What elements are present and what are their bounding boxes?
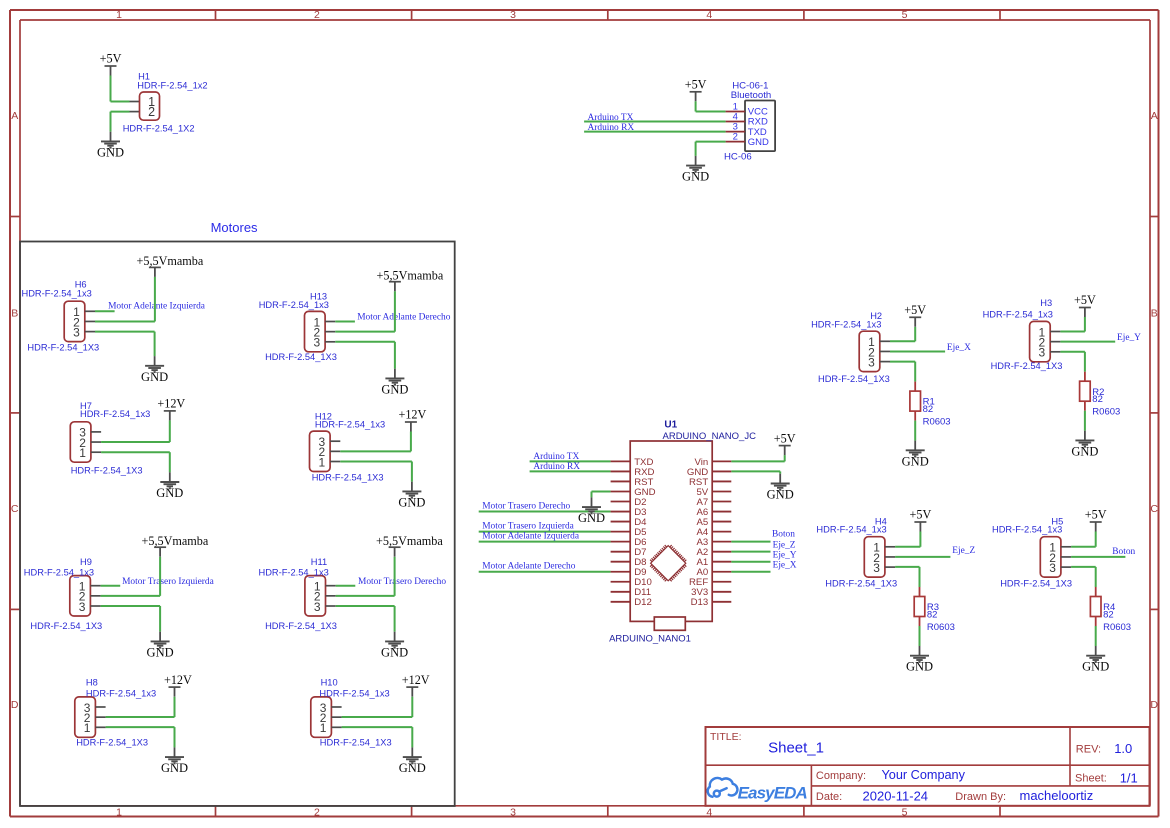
svg-text:HDR-F-2.54_1X2: HDR-F-2.54_1X2 [123, 123, 195, 133]
svg-text:U1: U1 [664, 420, 677, 431]
svg-text:H3: H3 [1040, 298, 1052, 308]
svg-text:HDR-F-2.54_1X3: HDR-F-2.54_1X3 [312, 473, 384, 483]
svg-text:HDR-F-2.54_1x3: HDR-F-2.54_1x3 [992, 525, 1062, 535]
svg-text:2: 2 [314, 806, 320, 818]
svg-text:R0603: R0603 [927, 622, 955, 633]
svg-text:+12V: +12V [402, 673, 430, 687]
svg-text:REV:: REV: [1076, 744, 1101, 756]
svg-text:+5V: +5V [904, 303, 926, 317]
svg-text:H10: H10 [321, 677, 338, 687]
svg-text:Boton: Boton [772, 529, 795, 539]
svg-text:+5V: +5V [1074, 293, 1096, 307]
svg-text:A: A [11, 110, 18, 122]
svg-text:TITLE:: TITLE: [710, 731, 742, 743]
svg-text:+5,5Vmamba: +5,5Vmamba [376, 534, 443, 548]
svg-text:H9: H9 [80, 557, 92, 567]
svg-text:GND: GND [161, 761, 188, 775]
svg-text:3: 3 [1049, 561, 1056, 575]
svg-text:H8: H8 [86, 677, 98, 687]
svg-text:HDR-F-2.54_1X3: HDR-F-2.54_1X3 [30, 621, 102, 631]
svg-text:Motor Trasero Izquierda: Motor Trasero Izquierda [482, 522, 574, 532]
svg-text:1.0: 1.0 [1114, 741, 1132, 756]
svg-text:Bluetooth: Bluetooth [731, 90, 772, 101]
svg-text:3: 3 [510, 806, 516, 818]
svg-text:GND: GND [398, 495, 425, 509]
svg-text:GND: GND [156, 486, 183, 500]
svg-text:HDR-F-2.54_1X3: HDR-F-2.54_1X3 [991, 361, 1063, 371]
svg-text:GND: GND [399, 761, 426, 775]
svg-text:GND: GND [147, 645, 174, 659]
svg-text:D13: D13 [691, 597, 709, 608]
svg-text:Your Company: Your Company [882, 768, 966, 782]
svg-text:Motor Adelante Izquierda: Motor Adelante Izquierda [108, 302, 206, 312]
svg-text:HDR-F-2.54_1x3: HDR-F-2.54_1x3 [319, 688, 389, 698]
svg-text:1: 1 [116, 9, 122, 21]
svg-text:HDR-F-2.54_1x3: HDR-F-2.54_1x3 [259, 568, 329, 578]
svg-text:Date:: Date: [816, 791, 842, 803]
svg-text:HDR-F-2.54_1x3: HDR-F-2.54_1x3 [80, 409, 150, 419]
svg-text:Sheet:: Sheet: [1075, 772, 1107, 784]
svg-text:Eje_X: Eje_X [947, 343, 971, 353]
svg-text:3: 3 [73, 325, 80, 339]
svg-text:Arduino TX: Arduino TX [588, 113, 634, 123]
svg-text:+5,5Vmamba: +5,5Vmamba [137, 254, 204, 268]
svg-text:4: 4 [706, 9, 712, 21]
svg-text:R0603: R0603 [923, 417, 951, 428]
svg-text:HDR-F-2.54_1X3: HDR-F-2.54_1X3 [265, 352, 337, 362]
svg-text:Motor Trasero Derecho: Motor Trasero Derecho [482, 502, 570, 512]
svg-text:Motor Trasero Derecho: Motor Trasero Derecho [358, 577, 446, 587]
svg-text:GND: GND [97, 145, 124, 159]
svg-text:3: 3 [313, 336, 320, 350]
svg-text:HDR-F-2.54_1X3: HDR-F-2.54_1X3 [1000, 578, 1072, 588]
svg-text:Motor Adelante Izquierda: Motor Adelante Izquierda [482, 532, 580, 542]
svg-text:GND: GND [682, 170, 709, 184]
svg-text:C: C [1150, 503, 1158, 515]
svg-text:82: 82 [927, 610, 938, 621]
svg-text:H11: H11 [311, 557, 327, 567]
svg-text:GND: GND [906, 660, 933, 674]
svg-text:1/1: 1/1 [1120, 770, 1138, 785]
svg-text:HDR-F-2.54_1x3: HDR-F-2.54_1x3 [24, 568, 94, 578]
svg-text:HDR-F-2.54_1X3: HDR-F-2.54_1X3 [76, 738, 148, 748]
svg-text:4: 4 [706, 806, 712, 818]
svg-text:GND: GND [578, 511, 605, 525]
svg-text:macheloortiz: macheloortiz [1020, 788, 1094, 803]
svg-text:+5V: +5V [774, 431, 796, 445]
svg-text:R0603: R0603 [1092, 407, 1120, 418]
svg-text:HDR-F-2.54_1x3: HDR-F-2.54_1x3 [86, 688, 156, 698]
svg-text:GND: GND [381, 382, 408, 396]
svg-text:+5,5Vmamba: +5,5Vmamba [142, 534, 209, 548]
svg-text:3: 3 [314, 600, 321, 614]
svg-text:+5V: +5V [1085, 508, 1107, 522]
svg-text:C: C [11, 503, 19, 515]
svg-text:+5V: +5V [100, 52, 122, 66]
svg-text:Drawn By:: Drawn By: [955, 791, 1006, 803]
svg-text:3: 3 [868, 355, 875, 369]
svg-text:A: A [1151, 110, 1158, 122]
svg-text:82: 82 [923, 404, 934, 415]
svg-text:1: 1 [318, 455, 325, 469]
svg-text:HDR-F-2.54_1X3: HDR-F-2.54_1X3 [27, 343, 99, 353]
svg-text:HDR-F-2.54_1X3: HDR-F-2.54_1X3 [825, 578, 897, 588]
svg-text:1: 1 [320, 721, 327, 735]
svg-text:Eje_Z: Eje_Z [952, 546, 975, 556]
svg-text:Eje_Y: Eje_Y [1117, 333, 1141, 343]
svg-text:HC-06: HC-06 [724, 152, 752, 163]
svg-text:+5V: +5V [685, 78, 707, 92]
svg-text:EasyEDA: EasyEDA [738, 783, 808, 802]
svg-text:5: 5 [902, 806, 908, 818]
svg-text:1: 1 [116, 806, 122, 818]
svg-text:1: 1 [84, 721, 91, 735]
svg-text:Motores: Motores [211, 220, 258, 235]
svg-text:GND: GND [1082, 660, 1109, 674]
svg-text:GND: GND [141, 370, 168, 384]
svg-text:5: 5 [902, 9, 908, 21]
svg-text:Sheet_1: Sheet_1 [768, 740, 824, 757]
svg-text:GND: GND [902, 454, 929, 468]
svg-text:HDR-F-2.54_1x2: HDR-F-2.54_1x2 [137, 81, 207, 91]
svg-text:Boton: Boton [1112, 547, 1135, 557]
svg-text:HDR-F-2.54_1X3: HDR-F-2.54_1X3 [320, 738, 392, 748]
svg-text:Arduino RX: Arduino RX [533, 462, 580, 472]
svg-text:+12V: +12V [157, 397, 185, 411]
svg-text:D12: D12 [634, 597, 652, 608]
svg-text:HDR-F-2.54_1x3: HDR-F-2.54_1x3 [22, 288, 92, 298]
svg-text:82: 82 [1092, 394, 1103, 405]
svg-text:GND: GND [381, 645, 408, 659]
svg-text:3: 3 [1039, 346, 1046, 360]
svg-text:HDR-F-2.54_1x3: HDR-F-2.54_1x3 [983, 309, 1053, 319]
svg-text:3: 3 [510, 9, 516, 21]
svg-text:D: D [1150, 699, 1158, 711]
svg-text:Motor Adelante Derecho: Motor Adelante Derecho [482, 562, 576, 572]
svg-text:HDR-F-2.54_1X3: HDR-F-2.54_1X3 [265, 621, 337, 631]
svg-text:ARDUINO_NANO_JC: ARDUINO_NANO_JC [663, 431, 757, 442]
svg-text:3: 3 [79, 600, 86, 614]
svg-text:2: 2 [148, 105, 155, 119]
svg-text:2: 2 [733, 132, 738, 143]
svg-text:Arduino TX: Arduino TX [533, 452, 579, 462]
svg-text:Eje_Z: Eje_Z [773, 540, 796, 550]
svg-text:+12V: +12V [164, 673, 192, 687]
svg-text:HDR-F-2.54_1x3: HDR-F-2.54_1x3 [315, 420, 385, 430]
svg-text:B: B [11, 308, 18, 320]
svg-text:R0603: R0603 [1103, 622, 1131, 633]
svg-text:Motor Adelante Derecho: Motor Adelante Derecho [357, 312, 451, 322]
svg-text:GND: GND [1071, 444, 1098, 458]
svg-text:+5V: +5V [910, 508, 932, 522]
svg-text:HDR-F-2.54_1X3: HDR-F-2.54_1X3 [71, 466, 143, 476]
svg-text:2: 2 [314, 9, 320, 21]
svg-text:HDR-F-2.54_1x3: HDR-F-2.54_1x3 [811, 320, 881, 330]
svg-text:82: 82 [1103, 610, 1114, 621]
svg-text:Motor Trasero Izquierda: Motor Trasero Izquierda [122, 577, 214, 587]
svg-text:Eje_X: Eje_X [773, 561, 797, 571]
svg-text:B: B [1151, 308, 1158, 320]
svg-text:Eje_Y: Eje_Y [773, 551, 797, 561]
svg-text:D: D [11, 699, 19, 711]
svg-text:GND: GND [748, 137, 769, 148]
svg-text:HDR-F-2.54_1x3: HDR-F-2.54_1x3 [816, 525, 886, 535]
svg-text:HDR-F-2.54_1x3: HDR-F-2.54_1x3 [259, 300, 329, 310]
svg-text:Arduino RX: Arduino RX [588, 123, 635, 133]
svg-text:1: 1 [79, 446, 86, 460]
svg-text:ARDUINO_NANO1: ARDUINO_NANO1 [609, 633, 691, 644]
svg-text:GND: GND [767, 488, 794, 502]
svg-text:3: 3 [873, 561, 880, 575]
svg-text:2020-11-24: 2020-11-24 [863, 788, 929, 803]
svg-text:Company:: Company: [816, 770, 866, 782]
svg-text:HDR-F-2.54_1X3: HDR-F-2.54_1X3 [818, 374, 890, 384]
svg-text:+12V: +12V [398, 408, 426, 422]
svg-text:+5,5Vmamba: +5,5Vmamba [377, 269, 444, 283]
